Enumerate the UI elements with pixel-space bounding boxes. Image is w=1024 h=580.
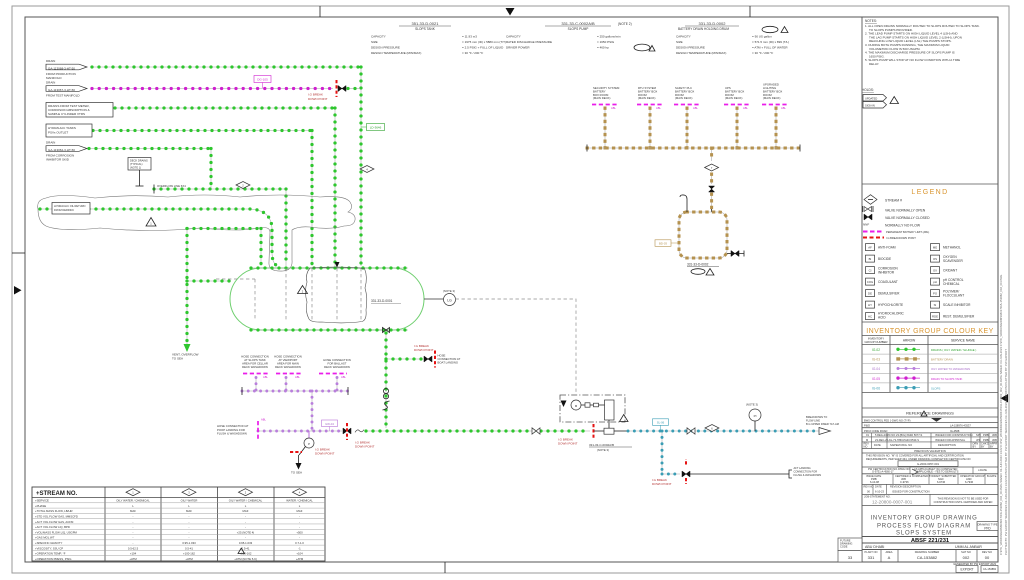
hose connection label 2 (274, 355, 302, 380)
svg-text:REQUIREMENTS, PER SHEP-334, UN: REQUIREMENTS, PER SHEP-334, UNDER DRAWIN… (866, 457, 971, 461)
svg-text:-: - (189, 530, 190, 534)
flush washdown ABL stub (217, 418, 266, 442)
tan battery drain drop 5 (775, 108, 777, 148)
svg-text:JOB-STATEMENT NO.: JOB-STATEMENT NO. (864, 495, 891, 499)
svg-text:DECK DRAINS: DECK DRAINS (130, 159, 148, 163)
svg-text:ISSUED FOR CONSTRUCTION: ISSUED FOR CONSTRUCTION (892, 489, 930, 493)
right edge alignment triangle (1001, 394, 1009, 403)
svg-text:B.G UPPER RISER 7A7-AM: B.G UPPER RISER 7A7-AM (806, 422, 839, 426)
svg-text:SI: SI (934, 303, 937, 307)
tank bottom edge dots (251, 329, 408, 331)
svg-text:DESCRIPTION: DESCRIPTION (938, 443, 956, 447)
svg-text:OS: OS (933, 257, 937, 261)
svg-text:ABL: ABL (693, 106, 698, 110)
wire green stub after break valve (348, 88, 360, 90)
discharge arrow to flow line (806, 415, 839, 435)
warning triangle in tank (298, 286, 308, 294)
svg-text:BY: BY (973, 445, 977, 449)
svg-text:00: 00 (867, 489, 870, 493)
wire IG-02 vertical riser x361 (360, 67, 362, 266)
top center alignment triangle (506, 8, 515, 16)
pressure instrument PI (746, 403, 761, 432)
svg-text:INVENTORY GROUP COLOUR KEY: INVENTORY GROUP COLOUR KEY (866, 328, 994, 335)
svg-text:DATE: DATE (874, 443, 881, 447)
svg-text:M: M (866, 438, 868, 442)
left edge alignment triangle (14, 286, 22, 295)
svg-text:OX: OX (933, 269, 937, 273)
equipment header: slops tank 351-33-D-0021 (371, 21, 506, 55)
svg-text:GA-113068-3-HT-50: GA-113068-3-HT-50 (48, 66, 75, 70)
svg-text:HYDRAULIC OIL RETURN: HYDRAULIC OIL RETURN (54, 204, 85, 208)
battery box label 3 (674, 86, 700, 110)
svg-text:1: 1 (150, 222, 152, 226)
violet center drop to header (311, 391, 313, 431)
valve normally open on slops header (532, 428, 540, 434)
svg-text:HYPOCHLORITE: HYPOCHLORITE (878, 303, 903, 307)
svg-text:-: - (133, 530, 134, 534)
svg-text:IG-4568: IG-4568 (950, 429, 960, 433)
svg-text:331-33-D-0001: 331-33-D-0001 (371, 299, 393, 303)
hydraulic oil return line inside cloud (40, 209, 276, 267)
svg-text:DOWN POINT: DOWN POINT (315, 452, 335, 456)
svg-text:TO SEA: TO SEA (291, 471, 302, 475)
svg-text:DRAIN TO SLOPS TANK: DRAIN TO SLOPS TANK (931, 377, 962, 381)
svg-text:BY: BY (990, 445, 994, 449)
svg-text:P: P (308, 442, 310, 446)
svg-text:C-9736: C-9736 (900, 480, 909, 484)
svg-text:FLOCCULANT: FLOCCULANT (943, 293, 964, 297)
svg-text:351-33-D-0021: 351-33-D-0021 (412, 21, 440, 26)
svg-text:HOLDS:: HOLDS: (862, 88, 874, 92)
line number label IG-04 (322, 420, 338, 427)
label box: hydraulic tanks psvs outlet (46, 124, 92, 137)
tan battery drain drop 4 (736, 108, 738, 148)
svg-text:SIZE: SIZE (676, 40, 683, 44)
svg-text:HY: HY (868, 303, 872, 307)
svg-text:ABU DHABI: ABU DHABI (865, 545, 884, 549)
svg-text:FLUSH & WASHDOWN: FLUSH & WASHDOWN (217, 432, 247, 436)
wire IG-02 vertical drop x211 (210, 149, 212, 190)
tan battery drain drop 2 (649, 108, 651, 148)
svg-text:DRAIN: DRAIN (46, 59, 55, 63)
svg-text:(NOTE 3): (NOTE 3) (443, 289, 455, 293)
svg-text:NOTES:: NOTES: (865, 19, 877, 23)
svg-text:(NOTE 2): (NOTE 2) (618, 22, 632, 26)
svg-text:331-33-C-0002A/B: 331-33-C-0002A/B (589, 443, 614, 447)
svg-text:0.95-1.033: 0.95-1.033 (239, 541, 253, 545)
teal branch down to aft landing (661, 431, 663, 474)
svg-text:-: - (245, 520, 246, 524)
svg-text:OPERATOR GROUP: OPERATOR GROUP (960, 474, 985, 478)
svg-text:JDB: JDB (992, 433, 997, 437)
flag callout: drain from test manifold (46, 81, 87, 98)
svg-text:BATTERY DRAIN HOLDING DRUM: BATTERY DRAIN HOLDING DRUM (678, 27, 729, 31)
svg-text:LG: LG (447, 299, 452, 303)
notes block (865, 19, 980, 66)
wire IG-02 vertical drop x286 to tank (285, 189, 287, 266)
title block (838, 516, 998, 563)
svg-text:-: - (299, 525, 300, 529)
hose connection label 3 (319, 358, 351, 379)
stream diamond 4 on riser x361 (360, 166, 374, 173)
svg-text:SIGN-IN: SIGN-IN (865, 103, 875, 107)
svg-text:DECK WASHDOWN: DECK WASHDOWN (242, 365, 268, 369)
svg-text:331-33-D-0002: 331-33-D-0002 (699, 21, 727, 26)
svg-text:PREVIOUS VALIDATION: PREVIOUS VALIDATION (914, 449, 945, 453)
svg-text:ARROW: ARROW (903, 339, 915, 343)
frame tick top x750 (749, 6, 751, 17)
frame tick left y253 (12, 252, 25, 254)
svg-text:+ATM: +ATM (296, 557, 304, 561)
svg-text:DESIGN TEMPERATURE (MIN/MAX): DESIGN TEMPERATURE (MIN/MAX) (371, 51, 421, 55)
svg-text:-: - (133, 541, 134, 545)
tan battery drain drop 3 (686, 108, 688, 148)
svg-text:DRIVER POWER: DRIVER POWER (506, 46, 530, 50)
svg-text:ABL: ABL (611, 106, 616, 110)
svg-text:I.G BREAKDOWN POINT: I.G BREAKDOWN POINT (886, 236, 916, 240)
svg-text:+100-162: +100-162 (183, 552, 195, 556)
svg-text:GA-113062-3-HT-50: GA-113062-3-HT-50 (48, 148, 75, 152)
flag callout: drain from production manifold (46, 59, 87, 80)
svg-text:CONSTRUCTION UNTIL CERTIFIED A: CONSTRUCTION UNTIL CERTIFIED AND DATED (934, 500, 993, 504)
svg-text:BWS CONTROL FED J-DWG NO (TYP): BWS CONTROL FED J-DWG NO (TYP) (864, 418, 911, 422)
battery box label 5 (762, 83, 788, 110)
svg-text:RATED DISCHARGE PRESSURE: RATED DISCHARGE PRESSURE (506, 40, 552, 44)
tank top edge dots (251, 267, 408, 269)
wire IG-02 vertical riser x312 (311, 131, 313, 267)
line number label IG-06 (653, 419, 669, 426)
svg-text:CODE: CODE (840, 545, 848, 549)
svg-text:PLANT NO: PLANT NO (865, 550, 878, 554)
tick at overflow header start (153, 185, 155, 194)
svg-text:LEGEND: LEGEND (911, 189, 948, 196)
svg-text:FLUSH & WASHDOWN: FLUSH & WASHDOWN (794, 473, 822, 477)
svg-text:-: - (189, 515, 190, 519)
svg-text:MANIFOLD: MANIFOLD (46, 76, 62, 80)
gray dashed feed into tank left (216, 278, 255, 280)
svg-text:HYDRAULIC TANKS: HYDRAULIC TANKS (48, 126, 76, 130)
svg-text:5. SLOPS PUMP WILL STOP AT NO: 5. SLOPS PUMP WILL STOP AT NO FLOW CONDI… (865, 58, 960, 62)
svg-text:+TOTAL MASS FLOW, LB/HR: +TOTAL MASS FLOW, LB/HR (35, 509, 72, 513)
svg-text:BIOCIDE: BIOCIDE (878, 257, 891, 261)
svg-text:= 250 gallons/min: = 250 gallons/min (597, 35, 621, 39)
svg-text:BREAKDOWN TO: BREAKDOWN TO (806, 415, 827, 419)
svg-text:DECK WASHDOWN: DECK WASHDOWN (324, 365, 350, 369)
svg-text:+500: +500 (296, 530, 303, 534)
svg-text:DRAWING NUMBER: DRAWING NUMBER (915, 550, 940, 554)
svg-text:+ATM (NOTE 5-6): +ATM (NOTE 5-6) (234, 557, 257, 561)
svg-text:ABL: ABL (263, 375, 268, 379)
svg-text:-: - (245, 536, 246, 540)
svg-text:BD-03: BD-03 (659, 242, 667, 246)
svg-text:0.5-41: 0.5-41 (242, 546, 250, 550)
svg-text:2: 2 (302, 289, 304, 293)
svg-text:+GAS MOL WT: +GAS MOL WT (35, 536, 55, 540)
svg-text:ISSUED FOR APPROVAL: ISSUED FOR APPROVAL (935, 438, 966, 442)
svg-text:= ATM + FULL OF WATER: = ATM + FULL OF WATER (752, 46, 788, 50)
tan battery drain drop 1 (604, 108, 606, 148)
svg-text:FLOW LINE: FLOW LINE (806, 419, 820, 423)
svg-text:METHANOL: METHANOL (943, 246, 961, 250)
svg-text:DRAIN: DRAIN (46, 81, 55, 85)
violet washdown drop 3 (336, 378, 338, 392)
vent overflow loop right drop to tank (260, 229, 262, 267)
svg-text:SLOPS TANK: SLOPS TANK (415, 27, 436, 31)
svg-text:DE: DE (868, 292, 872, 296)
svg-text:+VISCOSITY, SSU CP: +VISCOSITY, SSU CP (35, 546, 63, 550)
svg-text:DESIGN PRESSURE: DESIGN PRESSURE (676, 46, 705, 50)
svg-text:CHEMICAL: CHEMICAL (943, 282, 960, 286)
svg-text:+PHASE: +PHASE (35, 504, 46, 508)
svg-text:0.95-1.033: 0.95-1.033 (182, 541, 196, 545)
svg-text:+ACT VOL FLOW LIQ, BPD: +ACT VOL FLOW LIQ, BPD (35, 525, 70, 529)
svg-text:CAPACITY: CAPACITY (676, 35, 691, 39)
svg-text:-: - (133, 525, 134, 529)
svg-text:CA-153882: CA-153882 (917, 555, 938, 560)
svg-text:DOWN POINT: DOWN POINT (308, 97, 328, 101)
legend valve normally closed (864, 214, 872, 220)
svg-text:DRAINS ( OILY WATER / SLUDGE ): DRAINS ( OILY WATER / SLUDGE ) (931, 348, 976, 352)
svg-text:SLOPS: SLOPS (931, 386, 940, 390)
dashed signal line from LG to pump control (456, 299, 577, 394)
svg-text:ABL: ABL (261, 418, 266, 422)
battery box label 4 (724, 86, 750, 110)
svg-text:UMM AL ANBAR: UMM AL ANBAR (955, 545, 982, 549)
svg-text:+25 (NOTE 4): +25 (NOTE 4) (237, 530, 255, 534)
valve normally closed aft landing (682, 471, 690, 477)
svg-text:ABL: ABL (656, 106, 661, 110)
svg-text:= 571.5 mm (ID) x 899 (T/L): = 571.5 mm (ID) x 899 (T/L) (752, 40, 789, 44)
stream diamond 2 on overflow header (236, 182, 250, 189)
svg-text:+OPERATION TEMP, °F: +OPERATION TEMP, °F (35, 552, 66, 556)
svg-text:+ACT VOL FLOW GAS, ACFM: +ACT VOL FLOW GAS, ACFM (35, 520, 74, 524)
svg-text:OILY WATER TO WASHDOWN: OILY WATER TO WASHDOWN (931, 367, 970, 371)
svg-text:-1: -1 (298, 546, 301, 550)
svg-text:CONNECTION FOR: CONNECTION FOR (794, 470, 818, 474)
svg-text:OILY WATER / CHEMICAL: OILY WATER / CHEMICAL (116, 499, 150, 503)
line IG-02 overflow header y189 (154, 188, 286, 190)
svg-text:PSVs OUTLET: PSVs OUTLET (48, 131, 68, 135)
svg-text:OVERFLOW LINE 6X4: OVERFLOW LINE 6X4 (157, 184, 186, 188)
svg-text:-: - (133, 536, 134, 540)
svg-text:= 30 °F / 200 °F: = 30 °F / 200 °F (462, 51, 483, 55)
svg-text:STREAM #: STREAM # (885, 199, 902, 203)
svg-text:APPLICABLE - YES TO DEFAULTS: APPLICABLE - YES TO DEFAULTS (917, 470, 959, 474)
violet washdown drop 2 (285, 378, 287, 392)
svg-text:DG-105: DG-105 (257, 78, 268, 82)
line number label 35/36 (green) (367, 124, 385, 131)
svg-text:SLOPS SYSTEM: SLOPS SYSTEM (896, 531, 952, 537)
svg-text:FROM DERRICK: FROM DERRICK (54, 208, 74, 212)
line IG-02 drain from corrosion inhibitor skid (89, 148, 211, 150)
svg-text:ACID: ACID (878, 315, 886, 319)
svg-text:OILY WATER / CHEMICAL: OILY WATER / CHEMICAL (229, 499, 263, 503)
hose connection label 1 (241, 355, 269, 380)
flag callout: drain from corrosion inhibitor skid (46, 141, 87, 162)
spec break S symbol (383, 401, 390, 410)
svg-text:pH: pH (933, 280, 937, 284)
svg-text:= 30 °F / 200 °F: = 30 °F / 200 °F (752, 51, 773, 55)
svg-text:ISSUED FOR CONSTRUCTION: ISSUED FOR CONSTRUCTION (935, 433, 973, 437)
svg-text:+STREAM NO.: +STREAM NO. (36, 491, 78, 497)
violet lower header to flush connection (258, 430, 342, 432)
drum vent hook (680, 195, 687, 212)
battery box label 1 (592, 86, 620, 110)
svg-text:DEMULSIFIER: DEMULSIFIER (878, 292, 900, 296)
valve normally closed vertical on tan drop (709, 186, 715, 192)
svg-text:MAF: MAF (186, 509, 192, 513)
svg-text:IG-02: IG-02 (872, 348, 880, 352)
svg-text:SAMPLE CYLINDER VTRS: SAMPLE CYLINDER VTRS (48, 112, 85, 116)
svg-text:0.7-1.0: 0.7-1.0 (295, 541, 304, 545)
svg-text:NORMALLY NO FLOW: NORMALLY NO FLOW (885, 224, 921, 228)
line IG-02 hydraulic tanks psv outlet (93, 130, 312, 132)
svg-text:REST. DEMULSIFIER: REST. DEMULSIFIER (943, 315, 975, 319)
stream table (32, 487, 325, 561)
loop branch to tank shell y281 (187, 280, 231, 282)
svg-text:INHIBITOR: INHIBITOR (878, 270, 895, 274)
svg-text:LA-158976-43537: LA-158976-43537 (950, 424, 971, 428)
svg-text:(MAIN DECK): (MAIN DECK) (763, 96, 780, 100)
svg-text:REV NO: REV NO (982, 550, 992, 554)
svg-text:SPF: SPF (976, 433, 981, 437)
svg-text:B-DATE: B-DATE (987, 474, 997, 478)
svg-text:SL-06: SL-06 (657, 421, 665, 425)
svg-text:BY: BY (981, 445, 985, 449)
IG break before slops pump (593, 424, 595, 439)
equipment header: battery drain holding drum 331-33-D-0002 (676, 21, 789, 55)
main slops header green segment y431 (366, 430, 590, 432)
svg-text:C:\PW_WORKING\DMS08617\CA-1538: C:\PW_WORKING\DMS08617\CA-153882_002_00.… (999, 275, 1003, 555)
svg-text:CAPACITY: CAPACITY (371, 35, 386, 39)
svg-text:+SPECIFIC GRAVITY: +SPECIFIC GRAVITY (35, 541, 63, 545)
svg-text:+STD VOL FLOW GAS, MMSCFD: +STD VOL FLOW GAS, MMSCFD (35, 515, 78, 519)
IG break down point at boat landing (434, 351, 436, 368)
svg-text:G-2000-0057-001: G-2000-0057-001 (917, 462, 940, 466)
svg-text:MAF: MAF (243, 509, 249, 513)
svg-text:SIZE: SIZE (371, 40, 378, 44)
svg-text:REV NO: REV NO (864, 484, 874, 488)
right margin vertical text strip (999, 275, 1008, 555)
svg-text:TO SEA: TO SEA (172, 357, 183, 361)
export stamp below frame (953, 562, 998, 573)
reference drawings band (862, 408, 998, 433)
svg-text:ME: ME (933, 246, 937, 250)
svg-text:FROM TEST MANIFOLD: FROM TEST MANIFOLD (46, 94, 80, 98)
svg-text:+104: +104 (130, 552, 137, 556)
svg-text:SAIPEM DWG. NO: SAIPEM DWG. NO (890, 443, 912, 447)
svg-text:A: A (888, 555, 891, 560)
svg-text:-: - (133, 515, 134, 519)
valve normally closed at boat landing (424, 356, 432, 362)
svg-text:IG-05: IG-05 (872, 377, 880, 381)
svg-text:AF: AF (868, 246, 872, 250)
svg-text:SERVICE NAME: SERVICE NAME (951, 339, 975, 343)
legend chemical codes (866, 244, 976, 320)
svg-text:0.5-41: 0.5-41 (185, 546, 193, 550)
label box: deck drains typical (128, 158, 151, 187)
line IG-02 drain from production manifold (92, 66, 361, 68)
svg-text:INVENTORY GROUP DRAWING: INVENTORY GROUP DRAWING (870, 516, 977, 522)
svg-text:= 1650 PSIG: = 1650 PSIG (597, 40, 615, 44)
violet washdown drop 1 (255, 378, 257, 392)
svg-text:BOAT LANDING: BOAT LANDING (438, 361, 459, 365)
tank bottom drop line x386 (385, 333, 387, 428)
svg-text:+OPERATION PRESS, PSIG: +OPERATION PRESS, PSIG (35, 557, 71, 561)
svg-text:G-9731-A-4560-17: G-9731-A-4560-17 (872, 470, 894, 474)
svg-text:00: 00 (985, 555, 990, 560)
svg-text:6-7936: 6-7936 (965, 480, 974, 484)
svg-text:(MAIN DECK): (MAIN DECK) (593, 96, 610, 100)
svg-text:GA-113067-3-HT-50: GA-113067-3-HT-50 (48, 88, 75, 92)
legend stream diamond (864, 195, 877, 205)
tan battery drain header (587, 147, 800, 149)
svg-text:AFT LANDING: AFT LANDING (794, 466, 811, 470)
svg-text:DOWN POINT: DOWN POINT (558, 442, 578, 446)
svg-text:6-10-23: 6-10-23 (875, 489, 884, 493)
svg-text:PROJ CODE ROAD: PROJ CODE ROAD (864, 429, 887, 433)
svg-text:SHT NO: SHT NO (961, 550, 971, 554)
warning triangle on cloud line (146, 218, 156, 227)
svg-text:01: 01 (866, 433, 869, 437)
svg-text:-: - (189, 525, 190, 529)
slops pump 331-33-C-0002A/B (589, 400, 632, 452)
svg-text:33: 33 (848, 555, 853, 560)
svg-text:WATER / CHEMICAL: WATER / CHEMICAL (286, 499, 313, 503)
svg-text:PFD: PFD (984, 527, 991, 531)
svg-text:= 460 hp: = 460 hp (597, 46, 609, 50)
svg-text:P&ID: P&ID (864, 424, 870, 428)
svg-text:CI: CI (869, 269, 872, 273)
line IG-05 drain from test manifold (magenta) (92, 88, 333, 90)
svg-text:PROCESS FLOW DIAGRAM: PROCESS FLOW DIAGRAM (877, 524, 971, 530)
svg-text:IG-06: IG-06 (872, 386, 880, 390)
svg-text:ABL: ABL (743, 106, 748, 110)
svg-text:DELAY.: DELAY. (869, 62, 879, 66)
svg-text:NO: NO (864, 445, 868, 449)
svg-text:12-20800-0007-001: 12-20800-0007-001 (872, 500, 913, 505)
svg-text:RDE: RDE (932, 315, 938, 319)
equipment header: slops pump 331-33-C-0002A/B (506, 21, 655, 51)
slops pump suction line (594, 430, 605, 432)
svg-text:VALVE NORMALLY OPEN: VALVE NORMALLY OPEN (885, 209, 926, 213)
svg-text:JDB: JDB (992, 438, 997, 442)
IG break aft landing (685, 459, 687, 465)
svg-text:ANTI-FOAM: ANTI-FOAM (878, 246, 896, 250)
battery box label 2 (637, 86, 663, 110)
slops tank 331-33-D-0001 shell (230, 268, 424, 330)
branch to boat landing hose connection (386, 358, 422, 360)
svg-text:COG: COG (867, 280, 873, 284)
valve normally closed at washdown tie-in (343, 428, 351, 434)
svg-text:-: - (189, 520, 190, 524)
svg-text:UPDATED: UPDATED (865, 96, 877, 100)
svg-text:CAPACITY: CAPACITY (506, 35, 521, 39)
svg-text:6-10-98: 6-10-98 (870, 480, 879, 484)
legend IG breakdown dash (863, 237, 884, 239)
svg-text:331-33-C-0002A/B: 331-33-C-0002A/B (561, 21, 595, 26)
label box: drains from test meter (46, 103, 113, 118)
line number label DG-105 (magenta) (254, 76, 271, 83)
svg-text:DECK WASHDOWN: DECK WASHDOWN (275, 365, 301, 369)
svg-text:INHIBITOR SKID: INHIBITOR SKID (46, 157, 70, 161)
svg-text:SCAVENGER: SCAVENGER (943, 259, 963, 263)
svg-text:PMB: PMB (983, 433, 989, 437)
IG break at washdown tie-in (346, 423, 348, 440)
svg-text:DOWN POINT: DOWN POINT (652, 482, 672, 486)
svg-text:ABL: ABL (295, 375, 300, 379)
svg-text:+VOL/MASS FLOW LIQ, USGPM: +VOL/MASS FLOW LIQ, USGPM (35, 530, 78, 534)
